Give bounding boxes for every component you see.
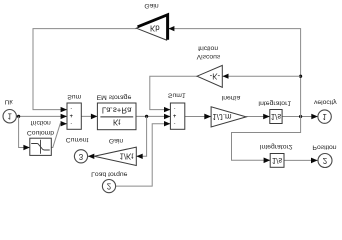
svg-text:Gain: Gain [109, 137, 124, 144]
block EM storage (transfer fcn Kt/(La.s+Ra)) [97, 103, 136, 130]
wire Load torque to Sum1 input 1 [116, 124, 171, 186]
svg-text:3: 3 [79, 152, 84, 161]
svg-text:1: 1 [322, 112, 326, 121]
wire EM storage to Sum1 [136, 115, 170, 117]
svg-text:velocity: velocity [314, 98, 337, 105]
wire Viscous friction output to Sum1 input 3 [150, 76, 197, 109]
wire Uk to Sum [16, 115, 67, 117]
block Integrator1 [270, 110, 282, 124]
arrowhead into Coulomb friction [23, 145, 29, 150]
svg-text:Load torque: Load torque [91, 171, 128, 178]
svg-text:Integrator2: Integrator2 [260, 143, 293, 150]
block Integrator2 [270, 154, 284, 168]
arrowhead into Integrator2 [264, 158, 271, 164]
svg-text:1/s: 1/s [272, 156, 283, 165]
svg-text:Current: Current [66, 136, 89, 143]
svg-text:1/s: 1/s [271, 112, 282, 121]
node junction D [299, 75, 302, 78]
svg-text:Integrator1: Integrator1 [258, 99, 291, 106]
arrowhead into Integrator1 [263, 114, 270, 120]
sum block Sum1 [170, 103, 184, 129]
arrowhead into Inertia [204, 114, 211, 120]
svg-text:friction: friction [198, 44, 218, 51]
arrowhead into Sum input 2 [61, 114, 67, 119]
arrowhead into Sum input 1 [61, 121, 67, 126]
svg-text:1/J.m: 1/J.m [212, 112, 232, 121]
arrowhead into Viscous friction gain (points left) [223, 74, 229, 79]
arrowhead into Kb gain (points left) [168, 26, 174, 31]
svg-text:Inertia: Inertia [221, 94, 240, 101]
svg-text:Coulomb: Coulomb [27, 129, 54, 136]
svg-text:friction: friction [31, 119, 51, 126]
wire Coulomb output diagonal to Sum input 1 [51, 124, 67, 148]
gain 1/Kt [94, 147, 136, 165]
block Coulomb friction [30, 138, 52, 155]
svg-text:Gain: Gain [144, 2, 159, 9]
svg-text:Uk: Uk [4, 98, 13, 105]
svg-text:Sum: Sum [67, 93, 81, 100]
arrowhead into Sum1 input 1 [164, 121, 170, 126]
arrowhead into Sum input 3 [61, 107, 67, 112]
svg-text:Kt: Kt [113, 117, 121, 126]
arrowhead into velocity port [311, 114, 318, 120]
gain Inertia 1/J.m [211, 107, 246, 127]
wire 1/Kt gain to Current port [88, 155, 94, 157]
arrowhead into EM storage [91, 114, 98, 120]
arrowhead into 1/Kt gain (points left) [136, 154, 142, 159]
wire junction C up to Integrator2 [232, 117, 301, 161]
port Uk (input 1) [3, 109, 16, 122]
svg-text:Viscous: Viscous [197, 53, 221, 60]
arrowhead into Position port [311, 158, 318, 164]
wire junction D to Viscous friction gain [223, 75, 301, 77]
svg-text:-K-: -K- [210, 72, 221, 81]
svg-text:Position: Position [312, 144, 336, 151]
port Current (output 3) [74, 150, 87, 163]
gain Viscous friction -K- [197, 65, 222, 87]
node junction A on Uk wire [17, 115, 20, 118]
port Load torque (input 2) [102, 180, 115, 193]
svg-text:2: 2 [323, 156, 327, 165]
node junction C [299, 115, 302, 118]
port velocity (output 1) [318, 110, 331, 123]
svg-text:Sum1: Sum1 [168, 91, 186, 98]
sum block Sum [67, 103, 81, 129]
wire Integrator1 to velocity port [282, 116, 318, 118]
gain Kb (with drop shadow) [136, 16, 166, 40]
wire junction B up to 1/Kt gain [136, 116, 146, 156]
wire junction A up to Coulomb friction input [19, 116, 30, 147]
svg-text:Kb: Kb [150, 24, 160, 33]
wire Sum1 to Inertia [185, 116, 211, 118]
arrowhead into Sum1 input 3 [164, 107, 170, 112]
wire Integrator2 to Position port [284, 159, 318, 161]
svg-text:2: 2 [107, 182, 111, 191]
port Position (output 2) [318, 154, 332, 168]
wire junction C down to Kb gain feedback [168, 29, 300, 117]
svg-text:La.s+Ra: La.s+Ra [102, 105, 132, 114]
svg-text:EM storage: EM storage [97, 94, 132, 101]
wire Kb gain output to Sum input 3 [33, 29, 137, 110]
wire Inertia to Integrator1 [246, 116, 270, 118]
arrowhead into Current port (points left) [88, 154, 94, 159]
wire Sum to EM storage [81, 115, 97, 117]
node junction B [145, 115, 148, 118]
svg-text:1: 1 [8, 112, 12, 121]
svg-text:1/Kt: 1/Kt [119, 151, 134, 160]
arrowhead into Sum1 input 2 [164, 114, 170, 119]
